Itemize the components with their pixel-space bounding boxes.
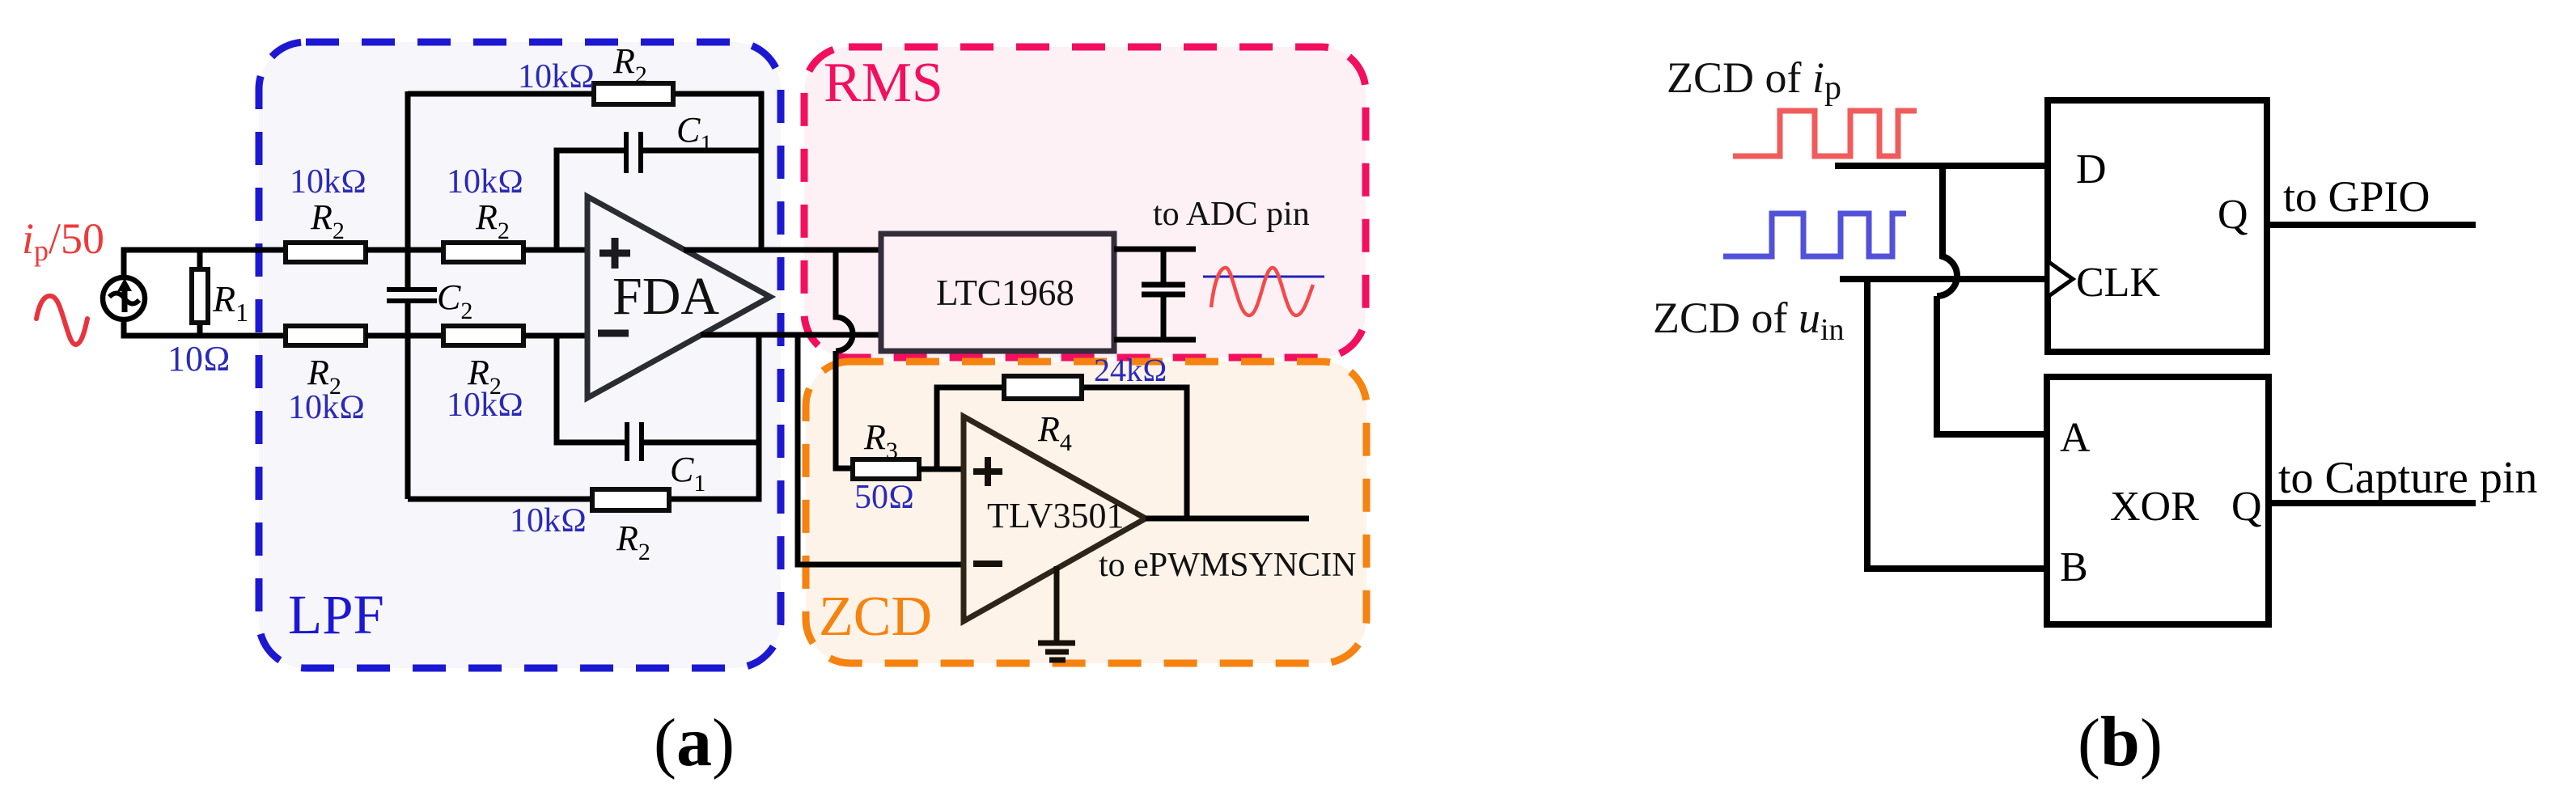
svg-text:ZCD: ZCD: [819, 586, 932, 648]
wire Q to GPIO: [2267, 222, 2476, 228]
svg-text:10kΩ: 10kΩ: [510, 502, 587, 539]
ZCD feedback wire: [937, 387, 1187, 518]
svg-text:XOR: XOR: [2110, 484, 2199, 530]
svg-text:50Ω: 50Ω: [854, 479, 914, 516]
svg-text:R1: R1: [212, 278, 248, 327]
blue square wave: [1723, 214, 1906, 256]
top feedback wire: [408, 94, 761, 250]
svg-text:to ePWMSYNCIN: to ePWMSYNCIN: [1099, 547, 1357, 584]
svg-text:10kΩ: 10kΩ: [447, 163, 523, 201]
svg-text:TLV3501: TLV3501: [987, 496, 1125, 535]
wire bottom rail left: [124, 321, 286, 336]
capacitor C2: [387, 290, 437, 301]
C1 bottom wire: [557, 336, 759, 442]
comparator output wire: [1146, 516, 1309, 522]
red square wave: [1733, 111, 1917, 156]
svg-text:B: B: [2060, 544, 2088, 590]
svg-text:FDA: FDA: [612, 267, 719, 326]
ZCD minus drop wire: [798, 335, 964, 565]
svg-text:ZCD of uin: ZCD of uin: [1653, 294, 1845, 347]
RMS sine symbol: [1203, 268, 1324, 315]
svg-text:10kΩ: 10kΩ: [447, 387, 523, 424]
resistor R1: [192, 269, 208, 323]
wire A drop with hop: [1937, 166, 2047, 434]
resistor R3: [853, 459, 919, 479]
current source I1: [103, 277, 145, 319]
svg-text:to GPIO: to GPIO: [2283, 172, 2430, 221]
svg-text:ip/50: ip/50: [22, 214, 104, 267]
wire Q to Capture pin: [2269, 500, 2476, 506]
svg-text:ZCD of ip: ZCD of ip: [1667, 53, 1841, 107]
ground: [1038, 566, 1075, 660]
wire D input: [1835, 163, 2048, 169]
bottom feedback wire: [408, 336, 759, 499]
svg-text:D: D: [2076, 146, 2107, 192]
FDA bottom output wire: [701, 332, 881, 338]
flip-flop U2: [2048, 100, 2267, 352]
resistor R2 top feedback: [594, 83, 673, 104]
wire R1 stubs: [197, 250, 203, 336]
resistor R2 b: [443, 243, 523, 262]
svg-text:10kΩ: 10kΩ: [290, 163, 366, 201]
IC LTC1968: [881, 234, 1114, 351]
svg-text:to Capture pin: to Capture pin: [2278, 453, 2537, 503]
ZCD tap vertical with hop: [836, 250, 853, 468]
svg-text:10kΩ: 10kΩ: [518, 58, 595, 95]
wire CLK input: [1840, 276, 2048, 282]
op-amp FDA: [587, 197, 770, 398]
svg-text:10kΩ: 10kΩ: [288, 389, 365, 426]
wire top rail left: [124, 250, 286, 279]
node line C2: [405, 91, 411, 499]
svg-text:(b): (b): [2078, 703, 2163, 781]
C1 top wire: [557, 150, 761, 250]
comparator TLV3501: [964, 417, 1146, 621]
RMS output wires: [1114, 249, 1196, 340]
wire: [366, 333, 443, 339]
FDA top output wire: [684, 247, 881, 253]
LPF region box: [259, 42, 781, 668]
svg-text:RMS: RMS: [824, 52, 943, 114]
capacitor C1 top: [626, 132, 641, 173]
resistor R2 bottom feedback: [592, 489, 669, 510]
svg-text:24kΩ: 24kΩ: [1094, 352, 1167, 388]
resistor R2 a: [286, 243, 366, 262]
resistor R4: [1004, 376, 1082, 399]
svg-text:LPF: LPF: [288, 584, 384, 645]
wire B drop: [1867, 279, 2047, 569]
svg-text:A: A: [2060, 415, 2091, 461]
gate XOR: [2047, 377, 2269, 624]
wire: [366, 247, 443, 253]
wire R3 to comparator: [919, 467, 964, 472]
svg-text:CLK: CLK: [2076, 260, 2160, 306]
svg-text:Q: Q: [2218, 192, 2248, 238]
resistor R2 c: [286, 326, 366, 345]
wire to FDA plus: [523, 247, 589, 253]
input sine symbol: [36, 296, 87, 345]
RMS region box: [804, 47, 1366, 357]
svg-text:(a): (a): [654, 703, 735, 781]
svg-text:LTC1968: LTC1968: [936, 273, 1074, 313]
svg-text:Q: Q: [2231, 484, 2262, 530]
svg-text:to ADC pin: to ADC pin: [1153, 196, 1310, 233]
RMS filter capacitor: [1142, 249, 1185, 340]
capacitor C1 bottom: [627, 422, 642, 461]
ZCD region box: [806, 362, 1366, 663]
wire to FDA minus: [523, 333, 589, 339]
resistor R2 d: [443, 326, 523, 345]
svg-text:10Ω: 10Ω: [167, 339, 231, 379]
